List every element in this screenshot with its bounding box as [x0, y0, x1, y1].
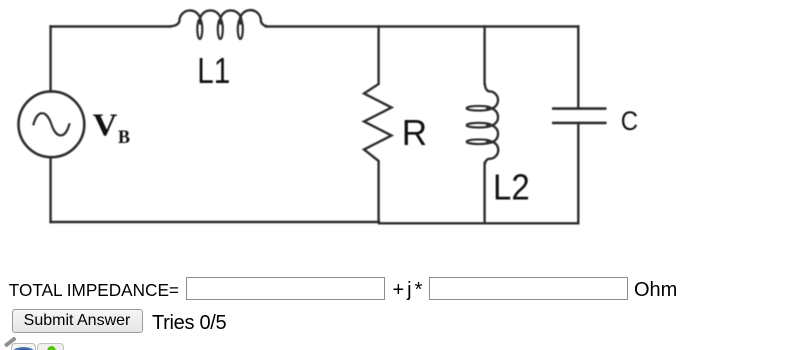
- svg-text:C: C: [621, 106, 638, 136]
- svg-text:V: V: [93, 106, 118, 142]
- svg-text:L2: L2: [493, 166, 530, 207]
- svg-text:B: B: [118, 127, 130, 148]
- svg-text:R: R: [402, 112, 427, 153]
- svg-text:L1: L1: [197, 50, 230, 91]
